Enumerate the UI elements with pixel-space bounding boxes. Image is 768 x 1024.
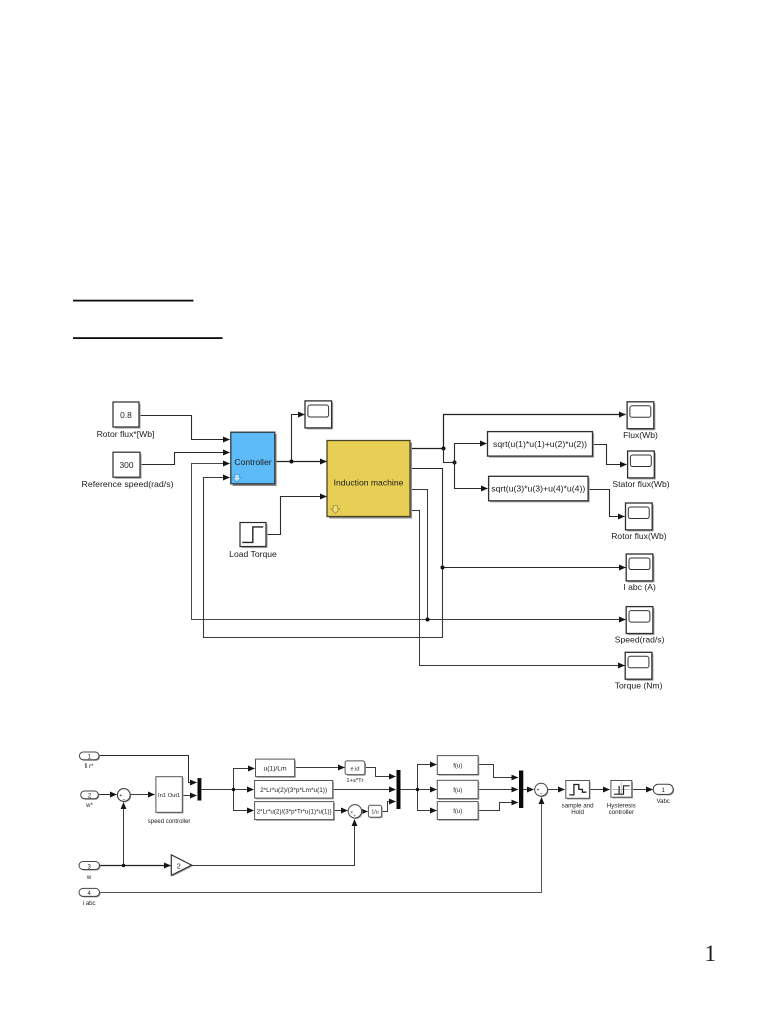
subsystem speed controller (148, 777, 191, 825)
inport 1 fi r* (79, 752, 100, 770)
wire W5 controller out to machine in1 (275, 461, 327, 463)
wire W7c flux branch (444, 449, 455, 463)
scope Stator flux(Wb) (612, 451, 669, 489)
subsystem Induction machine (327, 441, 412, 519)
wire V10 product to 1|u (362, 811, 368, 813)
wire V3 sum1 to speed controller (130, 794, 155, 796)
svg-text:Reference speed(rad/s): Reference speed(rad/s) (82, 479, 174, 489)
sum junction sum3 (535, 783, 549, 797)
svg-text:Load Torque: Load Torque (229, 549, 277, 559)
wire V2 port2 to sum1 (99, 794, 117, 796)
sum junction sum1 (117, 789, 131, 803)
svg-text:f(u): f(u) (453, 763, 462, 769)
fcn block u(1)|Lm (256, 759, 296, 778)
inport 4 i abc (79, 888, 101, 906)
wire V20 port3 to gain with branch to sum1 (100, 865, 171, 867)
svg-text:controller: controller (609, 809, 634, 816)
svg-text:Speed(rad/s): Speed(rad/s) (615, 635, 665, 645)
scope Speed(rad/s) (615, 607, 665, 645)
wire W5b branch to scope1 (292, 415, 305, 462)
wire V16 mux3 to sum3 (523, 789, 533, 791)
wire V1 port1 to mux1 (99, 756, 197, 783)
svg-text:f(u): f(u) (453, 809, 462, 815)
step block Load Torque (229, 523, 277, 560)
gain block 2 (171, 855, 193, 877)
svg-text:fi r*: fi r* (85, 764, 95, 770)
fcn block f(u) 3 (437, 802, 479, 821)
wire V14 f2 to mux3 (479, 789, 518, 791)
node speed junction (426, 618, 430, 622)
wire W2 speed ref to controller in2 (141, 453, 230, 465)
node mux1-out junction (232, 788, 235, 791)
scope Flux(Wb) (623, 402, 658, 440)
svg-text:w: w (86, 875, 92, 881)
svg-text:Rotor flux*[Wb]: Rotor flux*[Wb] (97, 429, 155, 439)
product block (divide) (348, 805, 362, 819)
svg-text:sqrt(u(1)*u(1)+u(2)*u(2)): sqrt(u(1)*u(1)+u(2)*u(2)) (493, 440, 587, 449)
wire W10 machine out4 to torque scope (411, 511, 625, 666)
svg-text:2*Lr*u(2)/(3*p*Lm*u(1)): 2*Lr*u(2)/(3*p*Lm*u(1)) (260, 788, 327, 794)
wire V17 sum3 to sample and hold (548, 789, 565, 791)
mux mux3 (519, 771, 523, 809)
scope Rotor flux(Wb) (611, 503, 667, 541)
svg-text:Stator flux(Wb): Stator flux(Wb) (612, 479, 669, 489)
wire V9 blockC to product (334, 810, 348, 812)
wire V13 f1 to mux3 (479, 765, 518, 778)
wire W3 speed feedback to controller in3 (192, 464, 428, 620)
fcn block sqrt rotor (489, 476, 590, 502)
svg-text:Flux(Wb): Flux(Wb) (623, 430, 658, 440)
svg-text:speed controller: speed controller (148, 819, 191, 825)
svg-text:Torque (Nm): Torque (Nm) (615, 680, 663, 690)
wire W7e to sqrt2 (455, 463, 488, 489)
scope I abc (A) (623, 554, 656, 592)
scope unnamed (top) (305, 401, 333, 430)
node port3 junction (122, 864, 125, 867)
svg-text:1: 1 (705, 941, 717, 966)
svg-text:I abc (A): I abc (A) (623, 582, 656, 592)
node controller-out junction (290, 460, 294, 464)
svg-text:sqrt(u(3)*u(3)+u(4)*u(4)): sqrt(u(3)*u(3)+u(4)*u(4)) (491, 485, 585, 494)
wire V5 mux1 out with branches (202, 789, 254, 791)
block sample and Hold (562, 781, 595, 817)
transfer fcn block 1+s*Tr (345, 761, 366, 784)
inport 3 w (79, 862, 101, 882)
outport 1 Vabc (653, 784, 674, 805)
fcn block 2*Lr*u(2)|(3*p*Lm*u(1)) (255, 781, 334, 800)
scope Torque (Nm) (615, 652, 663, 690)
wire W6 load torque to machine in2 (267, 497, 327, 535)
constant block 300 (82, 452, 174, 489)
svg-text:1+s*Tr: 1+s*Tr (346, 778, 363, 784)
svg-text:−: − (540, 791, 543, 797)
wire W8 machine out2 to iabc scope (411, 469, 626, 568)
wire V11 1|u to mux2 in3 (382, 802, 396, 812)
svg-text:Controller: Controller (234, 457, 271, 467)
svg-text:1/u: 1/u (371, 810, 378, 816)
svg-text:0.8: 0.8 (120, 410, 132, 420)
svg-text:+: + (354, 813, 357, 818)
svg-text:Vabc: Vabc (657, 799, 670, 805)
svg-text:In1 Out1: In1 Out1 (158, 793, 180, 799)
heading underline 2 (73, 337, 223, 339)
svg-text:u(1)/Lm: u(1)/Lm (264, 767, 287, 773)
svg-text:Rotor flux(Wb): Rotor flux(Wb) (611, 531, 667, 541)
wire V8 blockB to mux2 in2 (333, 789, 396, 791)
wire V12 mux2 out with branches (401, 789, 437, 791)
node iabc junction (441, 566, 445, 570)
svg-text:2: 2 (177, 863, 181, 870)
block Hysteresis controller (607, 781, 636, 817)
fcn block sqrt stator (488, 432, 595, 458)
subsystem Controller (231, 432, 277, 486)
wire W7f sqrt1 out to stator scope (593, 445, 627, 465)
inport 2 w* (81, 791, 100, 809)
wire V21 gain to product bottom (192, 820, 355, 866)
wire W7a machine out1 (411, 448, 444, 450)
wire W4 iabc feedback to controller in4 (204, 478, 443, 638)
svg-text:e.id: e.id (350, 766, 359, 772)
fcn block f(u) 1 (437, 756, 479, 776)
wire V4 speed controller to mux1 (183, 795, 197, 797)
svg-text:w*: w* (85, 803, 93, 809)
svg-text:Hold: Hold (571, 809, 584, 816)
fcn block 2*Lr*u(2)|(3*p*Tr*u(1)*u(1)) (255, 802, 335, 821)
wire V18 sample and hold to hysteresis (590, 789, 610, 791)
constant block 0.8 (97, 402, 155, 439)
svg-text:2*Lr*u(2)/(3*p*Tr*u(1)*u(1)): 2*Lr*u(2)/(3*p*Tr*u(1)*u(1)) (257, 809, 332, 815)
node flux junction (442, 447, 446, 451)
svg-text:Induction machine: Induction machine (334, 477, 404, 487)
svg-text:f(u): f(u) (453, 788, 462, 794)
fcn block f(u) 2 (437, 780, 479, 800)
wire W7d to sqrt1 (455, 444, 487, 463)
svg-text:i abc: i abc (83, 901, 96, 907)
wire W7b to Flux scope (444, 415, 626, 449)
wire W7g sqrt2 out to rotor scope (588, 490, 625, 517)
svg-text:300: 300 (120, 460, 134, 470)
svg-text:−: − (122, 797, 125, 803)
mux mux1 (198, 778, 202, 800)
mux mux2 (397, 770, 401, 809)
wire V7 TF to mux2 in1 (365, 768, 396, 777)
heading underline 1 (73, 300, 194, 302)
wire V22 port4 to sum3 bottom (100, 798, 542, 893)
wire V19 hysteresis to Vabc port (632, 789, 653, 791)
wire V15 f3 to mux3 (479, 803, 518, 811)
wire V6 blockA to TF (295, 767, 345, 769)
node mux2-out junction (416, 788, 419, 791)
wire W9 machine out3 to speed scope (411, 490, 626, 620)
wire W1 rotor flux ref to controller in1 (139, 416, 230, 440)
node flux branch junction (453, 461, 457, 465)
fcn block 1|u (368, 805, 382, 818)
